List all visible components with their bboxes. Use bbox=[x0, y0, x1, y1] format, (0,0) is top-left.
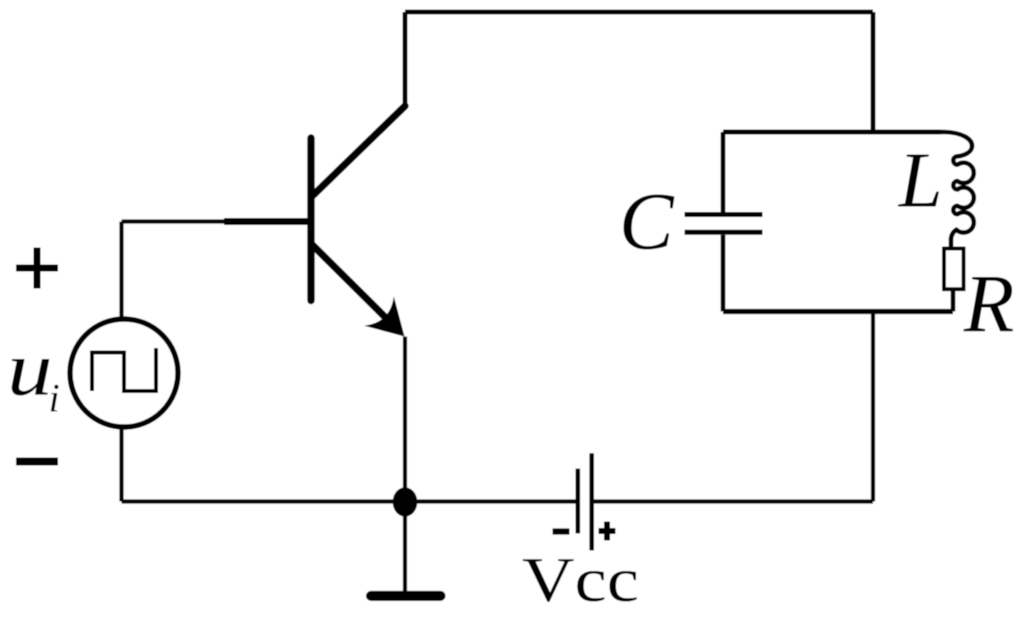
wire collector riser bbox=[403, 12, 408, 106]
svg-text:i: i bbox=[49, 376, 60, 421]
resistor R bbox=[944, 249, 964, 290]
wire top rail bbox=[405, 10, 873, 15]
wire node to ground bbox=[403, 502, 407, 595]
source ui (square-wave source) bbox=[70, 319, 178, 427]
label - (battery minus) bbox=[553, 528, 570, 534]
ground bbox=[371, 591, 441, 601]
node emitter junction bbox=[393, 487, 418, 516]
capacitor C bbox=[685, 132, 763, 312]
wire tank top bbox=[723, 130, 941, 135]
svg-text:Vcc: Vcc bbox=[522, 544, 639, 615]
inductor L bbox=[941, 132, 974, 249]
transistor Q1 emitter arrowhead bbox=[364, 296, 404, 336]
wire top feed to tank bbox=[871, 12, 876, 132]
label + (battery plus) bbox=[599, 522, 616, 541]
svg-text:L: L bbox=[898, 138, 943, 225]
svg-text:C: C bbox=[619, 176, 675, 267]
wire bottom left bbox=[122, 499, 576, 503]
svg-text:R: R bbox=[963, 258, 1015, 350]
wire resistor to tank bottom bbox=[951, 289, 956, 311]
label - (source negative) bbox=[16, 458, 58, 466]
wire emitter to node bbox=[403, 337, 407, 502]
transistor Q1 bbox=[224, 106, 405, 318]
battery Vcc bbox=[578, 453, 592, 550]
wire tank riser bbox=[871, 312, 875, 502]
svg-text:u: u bbox=[7, 326, 53, 412]
label + (source positive) bbox=[16, 248, 58, 289]
wire bottom right bbox=[594, 499, 873, 503]
wire tank bottom bbox=[723, 309, 953, 314]
wire source bottom bbox=[119, 427, 123, 502]
wire base lead bbox=[122, 219, 230, 223]
wire source top bbox=[119, 222, 123, 320]
